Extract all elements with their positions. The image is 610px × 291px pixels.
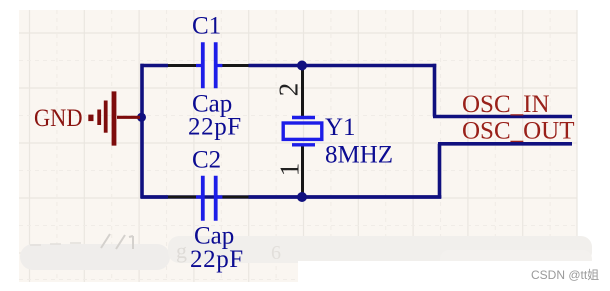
svg-text:1: 1: [275, 163, 305, 177]
svg-text:C1: C1: [192, 13, 221, 40]
svg-text:22pF: 22pF: [190, 246, 244, 273]
svg-text:Y1: Y1: [325, 114, 356, 141]
svg-text:C2: C2: [192, 146, 221, 173]
svg-text:OSC_OUT: OSC_OUT: [462, 117, 575, 144]
svg-text:g: g: [176, 238, 187, 263]
svg-text:OSC_IN: OSC_IN: [462, 91, 550, 118]
svg-text:8MHZ: 8MHZ: [325, 141, 393, 168]
svg-text:6: 6: [271, 242, 281, 264]
svg-text:CSDN @tt姐: CSDN @tt姐: [531, 268, 599, 282]
svg-text:22pF: 22pF: [188, 114, 242, 141]
svg-text:GND: GND: [34, 105, 83, 132]
svg-text:2: 2: [274, 83, 304, 97]
